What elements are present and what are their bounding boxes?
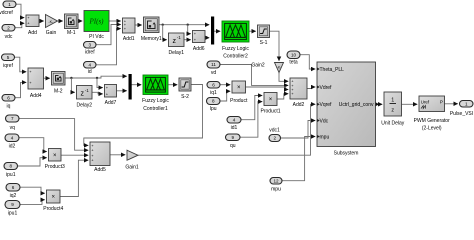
svg-text:Delay1: Delay1 <box>168 50 184 56</box>
svg-text:Add4: Add4 <box>30 93 42 99</box>
svg-text:mpu: mpu <box>271 187 281 193</box>
svg-text:id1: id1 <box>231 125 238 131</box>
svg-text:-K-: -K- <box>277 65 282 69</box>
svg-text:Vqref: Vqref <box>320 102 333 108</box>
svg-text:9: 9 <box>11 202 14 207</box>
svg-text:Gain: Gain <box>46 30 57 36</box>
svg-text:vd: vd <box>211 70 217 76</box>
svg-text:(2-Level): (2-Level) <box>422 126 442 132</box>
svg-text:vq: vq <box>10 125 16 131</box>
svg-text:-1: -1 <box>177 35 181 40</box>
svg-text:-1: -1 <box>85 88 89 93</box>
svg-text:Gain1: Gain1 <box>125 165 139 171</box>
svg-text:z: z <box>172 38 176 45</box>
svg-text:id2: id2 <box>9 143 16 149</box>
svg-text:iq: iq <box>7 103 11 109</box>
svg-text:-K-: -K- <box>48 20 54 24</box>
svg-text:Theta_PLL: Theta_PLL <box>320 67 345 73</box>
svg-text:Fuzzy Logic: Fuzzy Logic <box>222 46 249 52</box>
svg-text:iqref: iqref <box>3 63 13 69</box>
svg-text:lpu: lpu <box>210 106 217 112</box>
svg-text:6: 6 <box>212 82 215 87</box>
svg-text:M-1: M-1 <box>67 30 76 36</box>
svg-text:Add6: Add6 <box>193 46 205 52</box>
svg-text:Delay2: Delay2 <box>76 102 92 108</box>
svg-text:4: 4 <box>88 62 91 67</box>
svg-text:PI Vdc: PI Vdc <box>89 34 104 40</box>
svg-text:Add: Add <box>28 30 37 36</box>
svg-text:Vdc: Vdc <box>320 118 329 124</box>
svg-text:mpu: mpu <box>320 134 330 140</box>
svg-text:Controller2: Controller2 <box>223 54 248 60</box>
svg-text:S-1: S-1 <box>260 40 268 46</box>
svg-text:vdc: vdc <box>5 34 13 40</box>
svg-text:PWM Generator: PWM Generator <box>414 118 450 124</box>
svg-text:6: 6 <box>7 95 10 100</box>
svg-text:Unit Delay: Unit Delay <box>381 120 405 126</box>
svg-text:×: × <box>269 97 273 103</box>
svg-text:z: z <box>80 91 84 98</box>
svg-text:P: P <box>440 99 443 104</box>
svg-text:Memory1: Memory1 <box>141 36 162 42</box>
svg-text:Add1: Add1 <box>123 36 135 42</box>
svg-text:1: 1 <box>8 2 11 7</box>
svg-text:Uctrl_grid_conv: Uctrl_grid_conv <box>339 102 374 108</box>
svg-text:×: × <box>51 195 55 201</box>
svg-text:Add5: Add5 <box>94 167 106 173</box>
svg-text:1: 1 <box>465 101 468 106</box>
svg-text:5: 5 <box>7 55 10 60</box>
svg-text:8: 8 <box>9 164 12 169</box>
svg-text:12: 12 <box>273 178 279 183</box>
svg-text:Pulse_VSI: Pulse_VSI <box>450 111 473 117</box>
svg-text:4: 4 <box>233 117 236 122</box>
svg-text:Gain2: Gain2 <box>251 63 265 69</box>
svg-text:×: × <box>53 153 57 159</box>
svg-text:4: 4 <box>11 135 14 140</box>
svg-text:vdc1: vdc1 <box>269 128 280 134</box>
svg-text:9: 9 <box>231 135 234 140</box>
svg-text:iq2: iq2 <box>10 193 17 199</box>
svg-text:Vdref: Vdref <box>320 85 333 91</box>
svg-text:11: 11 <box>211 62 216 67</box>
svg-text:Product1: Product1 <box>260 108 280 114</box>
svg-text:teta: teta <box>289 59 298 65</box>
svg-text:Add2: Add2 <box>293 102 305 108</box>
svg-text:10: 10 <box>291 52 297 57</box>
svg-text:z: z <box>391 107 394 113</box>
svg-text:ipu1: ipu1 <box>6 172 16 178</box>
svg-text:S-2: S-2 <box>181 94 189 100</box>
svg-text:Uref: Uref <box>421 99 430 104</box>
svg-text:6: 6 <box>12 185 15 190</box>
svg-text:M-2: M-2 <box>54 88 63 94</box>
svg-text:ipu1: ipu1 <box>8 211 18 217</box>
svg-text:Fuzzy Logic: Fuzzy Logic <box>142 98 169 104</box>
svg-text:id: id <box>88 69 92 75</box>
svg-text:vdcref: vdcref <box>0 10 13 16</box>
svg-text:qu: qu <box>230 143 236 149</box>
svg-text:iq1: iq1 <box>210 90 217 96</box>
svg-text:Product: Product <box>230 98 248 104</box>
svg-text:8: 8 <box>212 99 215 104</box>
svg-text:3: 3 <box>88 42 91 47</box>
svg-text:2: 2 <box>7 25 10 30</box>
svg-text:2: 2 <box>273 136 276 141</box>
svg-text:7: 7 <box>11 116 14 121</box>
svg-text:PI(s): PI(s) <box>89 18 105 26</box>
svg-text:Controller1: Controller1 <box>143 106 168 112</box>
svg-text:×: × <box>237 85 241 91</box>
svg-text:1: 1 <box>391 98 394 104</box>
svg-text:idref: idref <box>85 50 95 56</box>
svg-text:Add7: Add7 <box>105 100 117 106</box>
svg-text:Product4: Product4 <box>43 206 63 212</box>
svg-text:Product3: Product3 <box>45 164 65 170</box>
svg-text:Subsystem: Subsystem <box>334 150 359 156</box>
